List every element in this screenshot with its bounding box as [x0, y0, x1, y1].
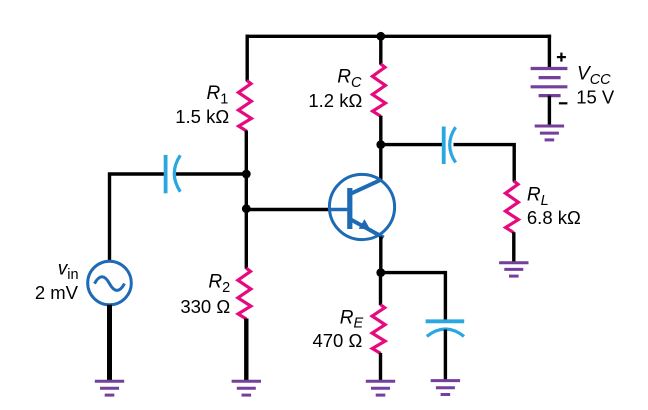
label R2 value 330 Ohm [180, 296, 230, 317]
wire collector node to transistor [379, 145, 382, 181]
label RE [340, 307, 364, 331]
wire RE to ground [379, 353, 382, 380]
wire base node to R2 [245, 209, 248, 269]
source vin (AC source) [88, 261, 132, 305]
wire input node to base node [245, 174, 248, 209]
ground below RE [366, 381, 395, 395]
wire R1 bottom to input node [245, 131, 248, 174]
wire emitter node to RE [379, 273, 382, 306]
wire top rail VCC [246, 35, 552, 38]
wire RC top stub [379, 36, 382, 64]
resistor RE [372, 305, 385, 354]
label RC value 1.2 kOhm [308, 90, 362, 111]
svg-text:15 V: 15 V [576, 86, 615, 107]
wire source to input cap [110, 174, 164, 262]
wire R1 top stub [245, 35, 248, 82]
label R1 [206, 83, 228, 107]
wire collector node to output cap [381, 143, 442, 146]
wire rail to battery [548, 35, 551, 69]
battery VCC [531, 69, 568, 96]
label battery minus [559, 102, 568, 104]
node input (junction dot) [242, 170, 251, 179]
label vin value 2 mV [35, 282, 79, 303]
label R2 [208, 272, 230, 296]
svg-text:1.2 kΩ: 1.2 kΩ [308, 90, 362, 111]
capacitor C3 emitter bypass [426, 321, 465, 336]
wire input cap to node [176, 172, 246, 175]
label RC [337, 67, 362, 91]
label battery plus [557, 53, 566, 62]
label VCC value 15 V [576, 86, 615, 107]
wire R2 to ground [244, 319, 248, 381]
ground below RL [499, 263, 528, 276]
wire base node to transistor base [246, 208, 330, 211]
svg-text:1.5 kΩ: 1.5 kΩ [175, 106, 229, 127]
wire emitter to emitter node [379, 237, 382, 273]
node collector (junction dot) [376, 140, 385, 149]
wire vin to ground [107, 305, 112, 381]
wire RC bottom to collector node [379, 116, 382, 145]
label R1 value 1.5 kOhm [175, 106, 229, 127]
wire bypass cap to ground [444, 330, 447, 380]
ground below vin [95, 381, 124, 395]
label RL [527, 184, 549, 208]
ground below battery [535, 126, 564, 140]
label vin [58, 259, 79, 283]
resistor R2 [238, 268, 251, 319]
resistor RC [372, 64, 385, 116]
node base (junction dot) [242, 204, 251, 213]
label RL value 6.8 kOhm [527, 207, 581, 228]
label VCC [577, 64, 611, 88]
svg-text:470 Ω: 470 Ω [312, 330, 362, 351]
wire RL to ground [512, 232, 515, 262]
wire battery to ground [548, 96, 551, 125]
wire emitter node to bypass cap [381, 273, 446, 321]
capacitor C1 input coupling [166, 155, 181, 193]
capacitor C2 output coupling [444, 127, 456, 165]
transistor Q1 [329, 174, 395, 239]
resistor RL [505, 181, 518, 233]
svg-text:2 mV: 2 mV [35, 282, 79, 303]
resistor R1 [238, 81, 251, 132]
node VCC rail (junction dot) [376, 32, 385, 41]
svg-text:330 Ω: 330 Ω [180, 296, 230, 317]
label RE value 470 Ohm [312, 330, 362, 351]
ground below bypass cap [431, 381, 460, 395]
ground below R2 [232, 381, 261, 395]
wire output cap to RL [454, 145, 515, 182]
svg-text:6.8 kΩ: 6.8 kΩ [527, 207, 581, 228]
node emitter (junction dot) [376, 268, 385, 277]
